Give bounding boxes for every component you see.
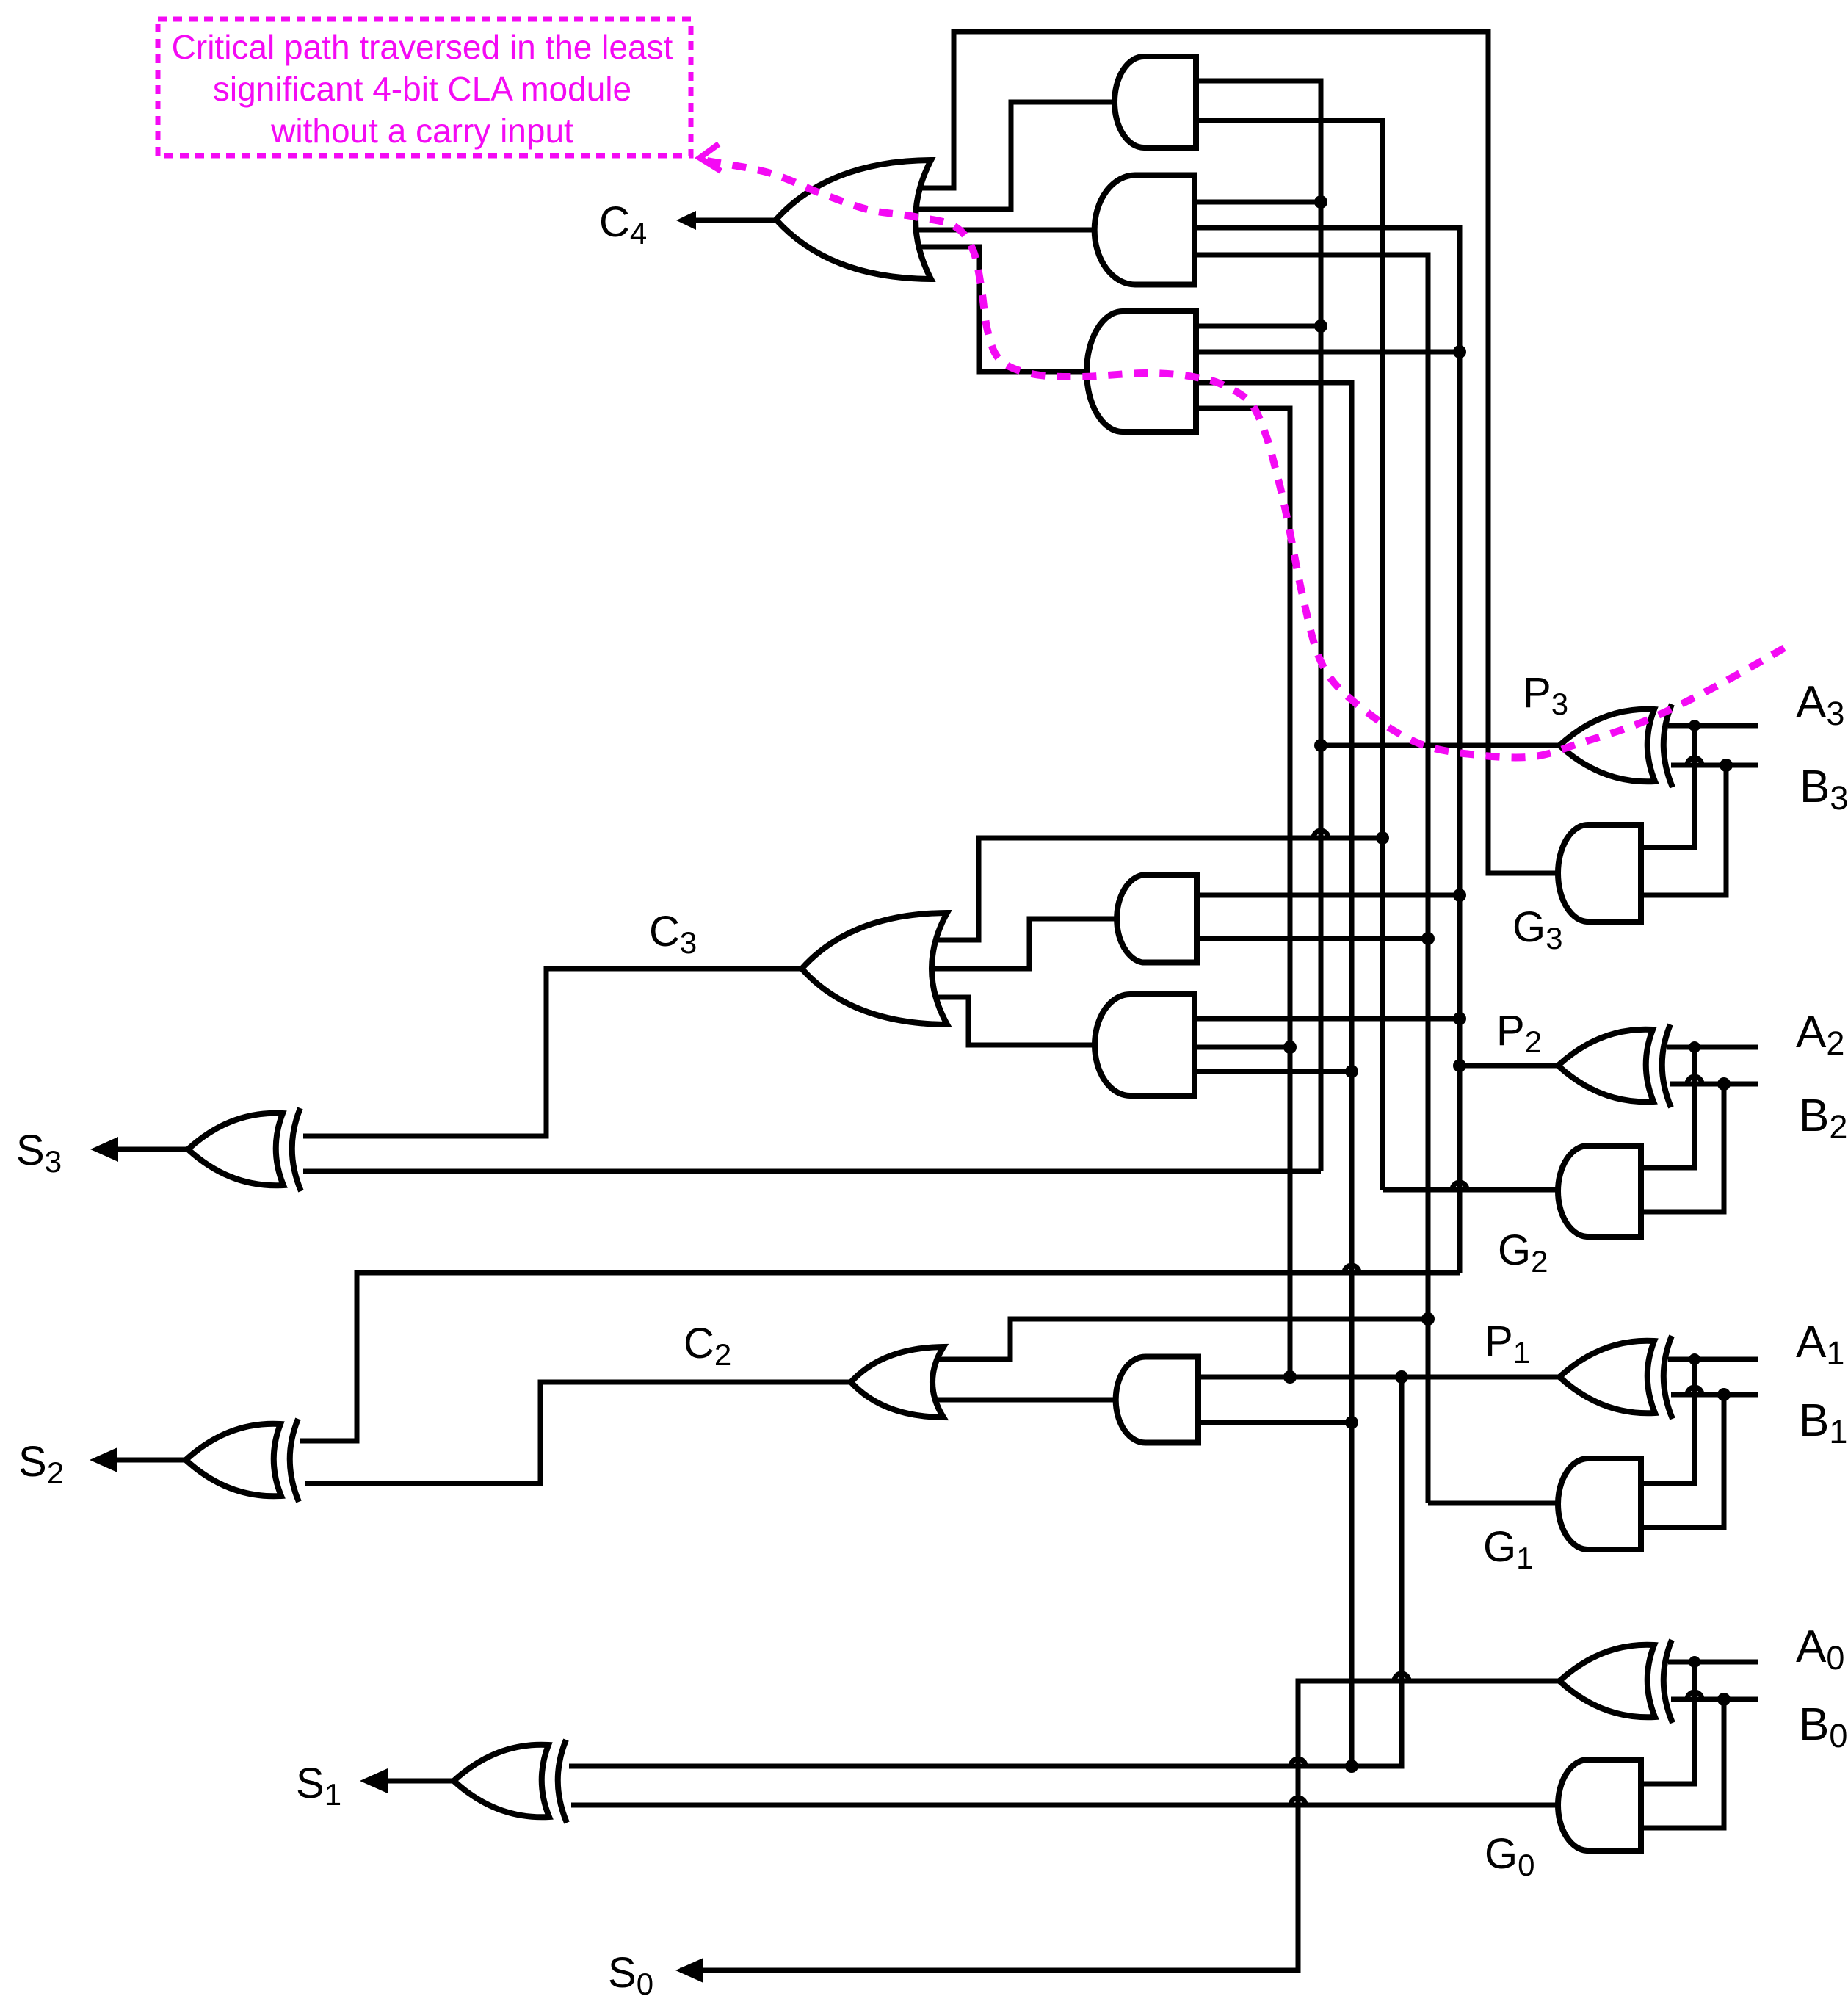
wire AND1 input-a to P3 bus	[1196, 81, 1321, 1171]
output arrow C4	[676, 211, 780, 230]
label P1	[1485, 1317, 1530, 1370]
hop B0 wire over A0 tap	[1687, 1692, 1702, 1699]
wire B3 tap to G3	[1641, 765, 1726, 895]
and-gate G2	[1558, 1146, 1641, 1237]
wire AND2 input-b to P2 bus	[1195, 228, 1460, 1273]
junction dot A2 tap	[1689, 1041, 1700, 1053]
wire P2 output	[1460, 1063, 1558, 1069]
wire S3 input2 to P3 bus	[303, 1169, 1321, 1174]
label A1	[1796, 1317, 1844, 1372]
wire G1 output	[1428, 1501, 1558, 1506]
wire A0 tap to G0	[1641, 1662, 1695, 1784]
label C3	[649, 908, 697, 960]
junction dot A0 tap	[1689, 1656, 1700, 1668]
junction dot P1-AND5	[1345, 1065, 1358, 1078]
wire B0 input	[1671, 1697, 1758, 1702]
annotation text	[172, 28, 673, 150]
critical path dashed curve	[707, 161, 1792, 757]
label A2	[1796, 1007, 1844, 1062]
junction dot S1riser-P1wire	[1395, 1370, 1408, 1384]
wire S2 input2 from C2	[305, 1481, 540, 1486]
junction dot G1-C2in1	[1421, 1312, 1435, 1326]
label G1	[1483, 1523, 1533, 1575]
wire P3 output	[1321, 743, 1559, 748]
output arrow S3	[90, 1137, 192, 1162]
output arrow S1	[360, 1768, 458, 1793]
or-gate C2	[851, 1347, 943, 1417]
and-gate G0	[1558, 1760, 1641, 1851]
wire A3 tap to G3	[1641, 726, 1695, 847]
label S1	[296, 1760, 341, 1812]
junction dot P2-AND3	[1453, 345, 1466, 358]
junction dot G0riser-P1wire	[1283, 1370, 1297, 1384]
label B3	[1800, 762, 1848, 817]
junction dot P2-AND5	[1453, 1012, 1466, 1025]
wire OR-C3 input1 to G2 bus	[935, 838, 1383, 940]
xor-gate S1	[454, 1740, 567, 1823]
junction dot P1bus-S1in1	[1345, 1760, 1358, 1773]
and-gate AND3 P3·P2·P1·G0	[1087, 311, 1196, 432]
label G3	[1512, 903, 1562, 955]
wire OR-C4 input2 from AND1	[916, 102, 1116, 209]
wire S1 input2 / G0 output	[571, 1803, 1559, 1808]
junction dot A1 tap	[1689, 1353, 1700, 1365]
wire B2 input	[1670, 1082, 1758, 1087]
wire OR-C2 input1 to G1 bus	[936, 1319, 1428, 1359]
label A3	[1796, 677, 1844, 732]
label G2	[1498, 1226, 1548, 1279]
label P2	[1496, 1007, 1542, 1059]
label G0	[1485, 1830, 1534, 1882]
wire AND5 input-c to P1 bus	[1195, 1069, 1352, 1074]
svg-text:Critical path traversed in the: Critical path traversed in the least	[172, 28, 673, 66]
wire B2 tap to G2	[1641, 1084, 1724, 1212]
wire S0 from P0 xor	[680, 1681, 1559, 1970]
wire OR-C4 input1 to G3 bus	[918, 32, 1560, 873]
wire AND3 input-d to G0 bus	[1196, 408, 1290, 1377]
wire AND4 input-b to G1 bus	[1197, 936, 1428, 941]
hop P0wire over S1 riser	[1394, 1674, 1409, 1681]
wire AND1 input-b to G2 bus	[1196, 120, 1383, 1190]
wire B1 tap to G1	[1641, 1395, 1724, 1528]
junction dot P3-AND3	[1314, 319, 1327, 333]
label S0	[608, 1949, 653, 2001]
hop B3 wire over A3 tap	[1687, 758, 1702, 765]
junction dot G1-AND4	[1421, 932, 1435, 945]
and-gate AND6 P1·G0	[1116, 1357, 1198, 1443]
or-gate C4 (carry out OR)	[776, 160, 931, 279]
annotation box (dashed)	[158, 19, 691, 156]
junction dot P2 bus-output	[1453, 1059, 1466, 1072]
hop S1in1 over S0 line	[1291, 1759, 1305, 1766]
junction dot G2 bus-C3in1	[1376, 831, 1389, 845]
label S3	[16, 1127, 62, 1179]
and-gate AND1 P3·G2	[1115, 57, 1196, 148]
output arrow S2	[90, 1447, 190, 1472]
xor-gate P2	[1558, 1024, 1671, 1107]
wire C3 output to S3 xor	[303, 969, 802, 1136]
junction dot B2 tap	[1717, 1077, 1731, 1091]
wire A1 tap to G1	[1641, 1359, 1695, 1483]
or-gate C3	[802, 913, 947, 1024]
wire S1 input1 to P1 riser	[569, 1377, 1402, 1766]
wire OR-C3 input2 from AND4	[931, 919, 1115, 969]
junction dot B1 tap	[1717, 1388, 1731, 1401]
wire B1 input	[1671, 1392, 1758, 1398]
label C2	[684, 1320, 731, 1372]
and-gate G1	[1558, 1458, 1641, 1550]
and-gate AND2 P3·P2·G1	[1095, 176, 1195, 285]
wire B3 input	[1671, 763, 1758, 768]
wire OR-C2 input2 from AND6	[934, 1398, 1117, 1403]
junction dot P2-AND4	[1453, 889, 1466, 902]
wire AND5 input-a to P2 bus	[1195, 1016, 1460, 1022]
and-gate AND4 P2·G1	[1117, 875, 1197, 963]
label P3	[1523, 669, 1568, 721]
wire A1 input	[1668, 1357, 1758, 1362]
svg-text:without a carry input: without a carry input	[270, 112, 573, 150]
wire A3 input	[1668, 723, 1758, 729]
label S2	[18, 1438, 64, 1490]
junction dot P1-AND6	[1345, 1416, 1358, 1429]
wire G2 output	[1383, 1187, 1559, 1193]
wire OR-C4 input3 from AND2	[915, 228, 1096, 233]
wire C2 output to S2 xor	[305, 1382, 851, 1483]
wire AND4 input-a to P2 bus	[1197, 893, 1460, 898]
label B2	[1799, 1091, 1847, 1146]
xor-gate S2	[186, 1419, 299, 1502]
wire AND3 input-c to P1 bus	[1196, 383, 1352, 1766]
junction dot G0-AND5	[1283, 1041, 1297, 1054]
xor-gate P1	[1559, 1336, 1673, 1419]
wire AND2 input-a to P3 bus	[1195, 200, 1321, 205]
xor-gate P0	[1559, 1640, 1673, 1723]
wire OR-C3 input3 from AND5	[935, 997, 1096, 1045]
svg-text:significant 4-bit CLA module: significant 4-bit CLA module	[213, 70, 631, 108]
wire AND2 input-c to G1 bus	[1195, 255, 1428, 1503]
wire AND3 input-b to P2 bus	[1196, 350, 1460, 355]
xor-gate P3	[1559, 704, 1673, 787]
critical path arrowhead	[700, 144, 721, 171]
hop G0wire over S0 line	[1291, 1798, 1305, 1805]
wire A0 input	[1668, 1660, 1758, 1665]
wire A2 tap to G2	[1641, 1047, 1695, 1168]
hop B1 wire over A1 tap	[1687, 1387, 1702, 1395]
wire S2 input1 to P2 bus	[300, 1273, 1460, 1441]
wire A2 input	[1667, 1045, 1758, 1050]
hop G2wire over P2 bus	[1452, 1182, 1467, 1190]
output arrow S0	[675, 1958, 703, 1983]
wire AND6 input-a / P1 output wire	[1198, 1375, 1559, 1380]
label B1	[1799, 1395, 1847, 1450]
wire B0 tap to G0	[1641, 1699, 1724, 1828]
and-gate G3	[1558, 825, 1641, 922]
hop S2in1 over P1 bus	[1344, 1265, 1359, 1273]
wire AND5 input-b to G0 bus	[1195, 1045, 1290, 1050]
wire AND3 input-a to P3 bus	[1196, 324, 1321, 329]
junction dot B3 tap	[1720, 759, 1733, 772]
junction dot P3 bus-output	[1314, 739, 1327, 752]
and-gate AND5 P2·P1·G0	[1095, 994, 1195, 1096]
junction dot B0 tap	[1717, 1693, 1731, 1706]
junction dot A3 tap	[1689, 720, 1700, 731]
hop C3in1 over P3 bus	[1313, 831, 1328, 838]
xor-gate S3	[188, 1108, 301, 1191]
label B0	[1799, 1699, 1847, 1754]
label C4	[599, 198, 647, 250]
wire OR-C4 input4 from AND3	[918, 247, 1088, 372]
hop B2 wire over A2 tap	[1687, 1077, 1702, 1084]
junction dot P3-AND2	[1314, 195, 1327, 209]
wire AND6 input-b to P1 bus	[1198, 1420, 1352, 1425]
label A0	[1796, 1622, 1844, 1677]
